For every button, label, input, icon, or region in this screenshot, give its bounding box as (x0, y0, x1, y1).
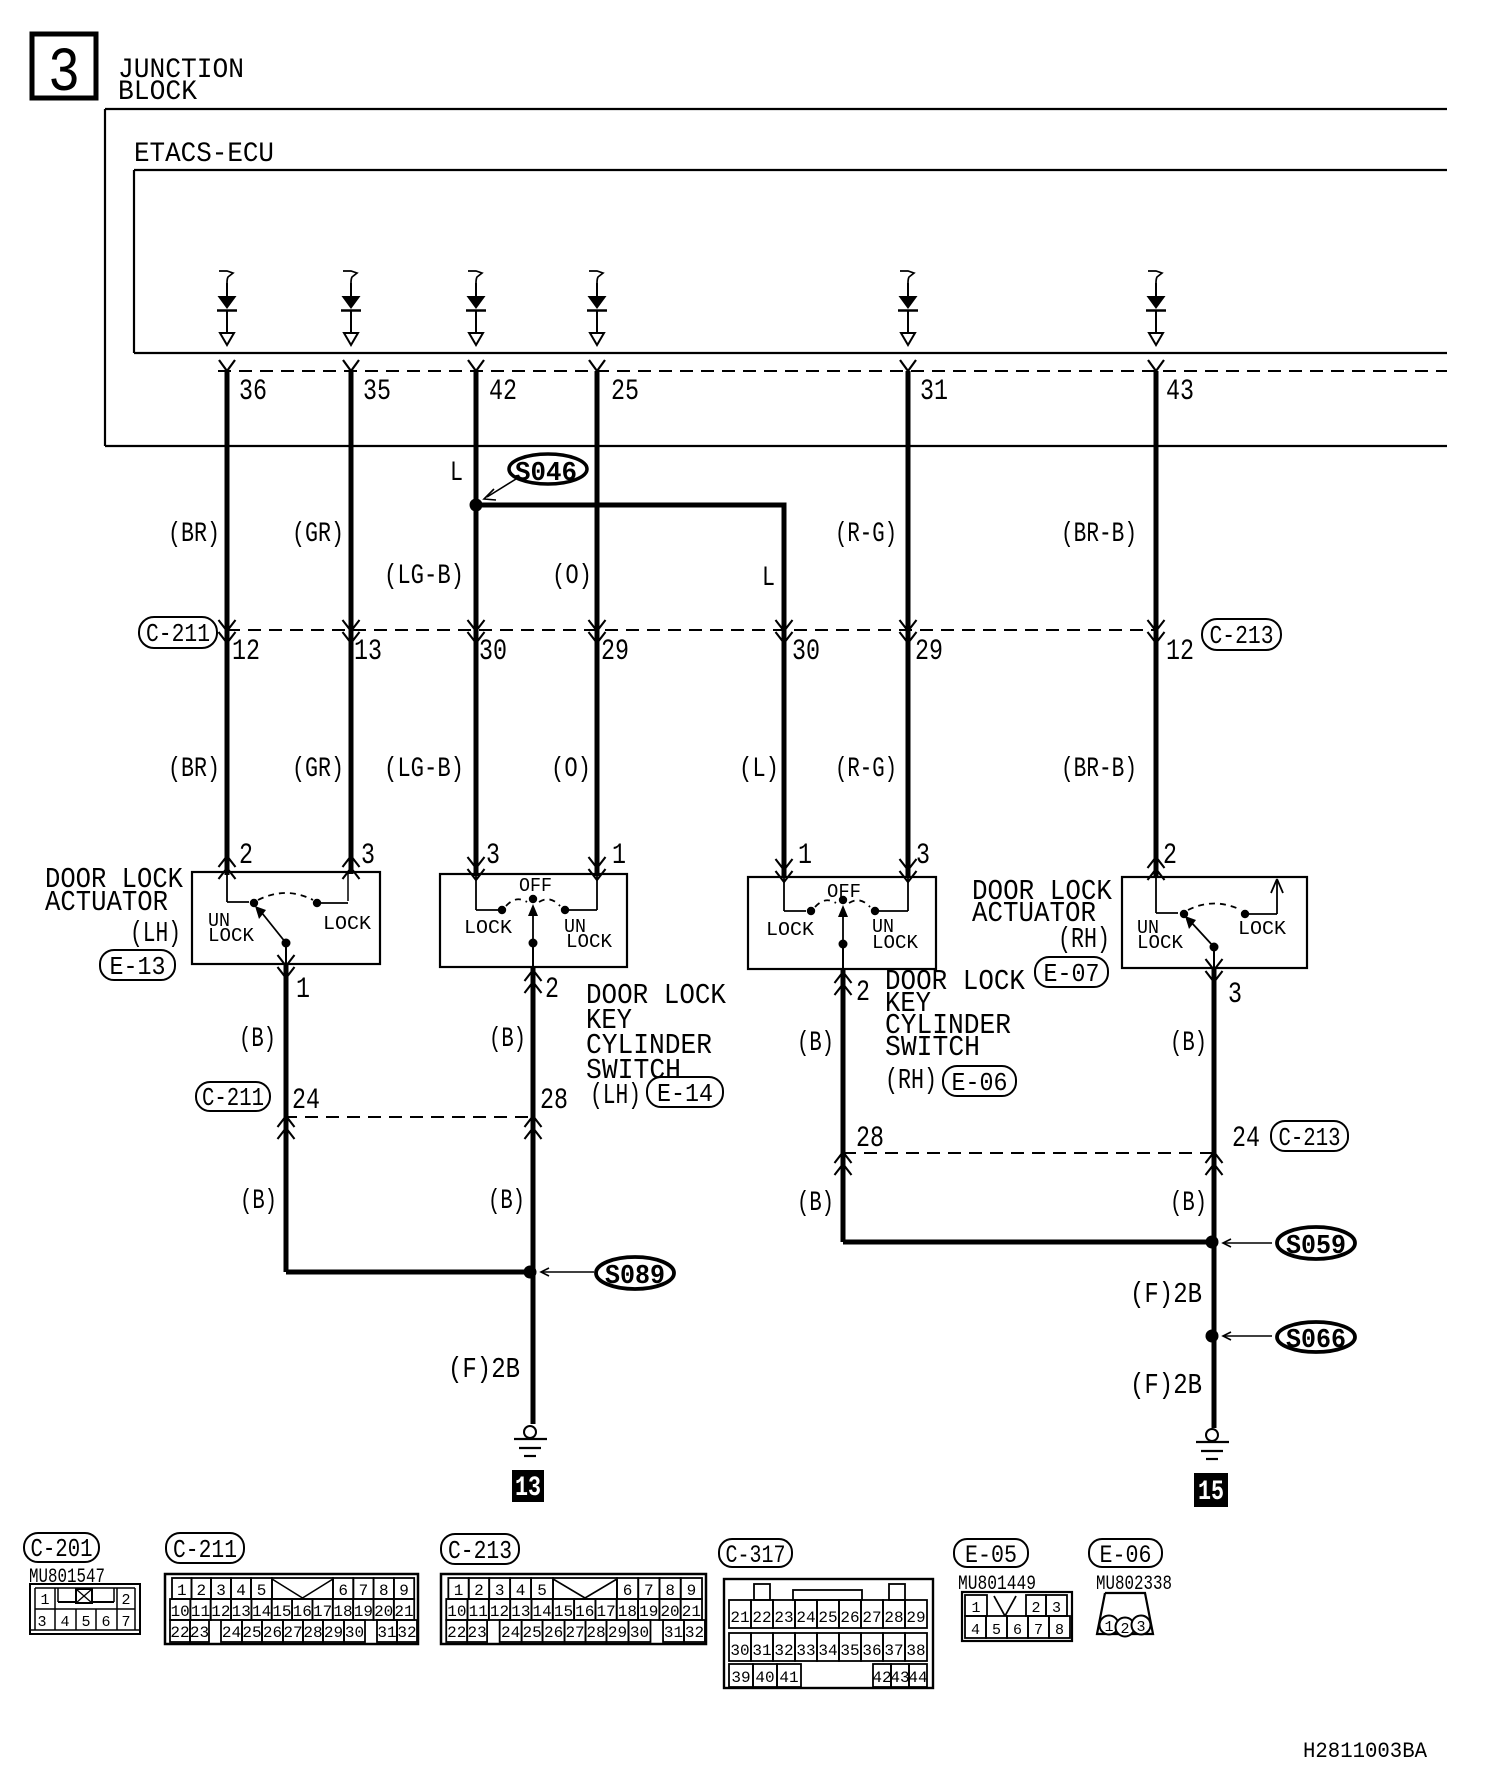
svg-text:15: 15 (1198, 1477, 1224, 1508)
svg-text:29: 29 (906, 1609, 925, 1627)
svg-text:36: 36 (862, 1642, 881, 1660)
svg-text:(LG-B): (LG-B) (384, 561, 464, 592)
svg-text:LOCK: LOCK (1238, 918, 1287, 940)
svg-text:1: 1 (971, 1600, 980, 1617)
svg-text:13: 13 (354, 635, 382, 669)
svg-text:8: 8 (665, 1582, 675, 1600)
svg-text:12: 12 (490, 1603, 509, 1621)
svg-text:27: 27 (565, 1624, 584, 1642)
svg-text:C-317: C-317 (726, 1541, 786, 1570)
svg-text:ACTUATOR: ACTUATOR (45, 886, 168, 919)
svg-text:3: 3 (495, 1582, 505, 1600)
svg-text:16: 16 (575, 1603, 594, 1621)
svg-text:31: 31 (752, 1642, 771, 1660)
svg-text:(B): (B) (488, 1186, 525, 1217)
svg-text:6: 6 (101, 1614, 110, 1631)
svg-text:25: 25 (523, 1624, 542, 1642)
svg-text:42: 42 (872, 1669, 891, 1687)
svg-text:(LH): (LH) (590, 1079, 641, 1112)
svg-text:2: 2 (1031, 1600, 1040, 1617)
svg-text:LOCK: LOCK (766, 919, 815, 941)
svg-text:3: 3 (1228, 978, 1242, 1012)
svg-text:(GR): (GR) (292, 754, 344, 785)
svg-text:(BR-B): (BR-B) (1061, 754, 1137, 785)
svg-text:(GR): (GR) (292, 519, 344, 550)
svg-text:9: 9 (687, 1582, 697, 1600)
svg-text:30: 30 (479, 635, 507, 669)
svg-text:37: 37 (884, 1642, 903, 1660)
svg-text:18: 18 (333, 1603, 352, 1621)
svg-text:2: 2 (196, 1582, 206, 1600)
svg-text:C-211: C-211 (146, 619, 210, 649)
svg-text:30: 30 (730, 1642, 749, 1660)
svg-text:32: 32 (397, 1624, 416, 1642)
svg-text:43: 43 (1166, 375, 1194, 409)
svg-text:40: 40 (755, 1669, 774, 1687)
svg-text:35: 35 (363, 375, 391, 409)
svg-text:(F)2B: (F)2B (1130, 1369, 1202, 1402)
svg-text:LOCK: LOCK (1137, 932, 1184, 954)
svg-text:(B): (B) (797, 1188, 834, 1219)
svg-text:5: 5 (537, 1582, 547, 1600)
svg-text:26: 26 (840, 1609, 859, 1627)
svg-text:23: 23 (468, 1624, 487, 1642)
svg-text:27: 27 (862, 1609, 881, 1627)
svg-text:(BR): (BR) (168, 519, 220, 550)
svg-text:S066: S066 (1286, 1326, 1346, 1356)
svg-text:21: 21 (730, 1609, 749, 1627)
svg-text:3: 3 (48, 38, 80, 109)
svg-text:4: 4 (60, 1614, 69, 1631)
svg-text:26: 26 (263, 1624, 282, 1642)
svg-text:LOCK: LOCK (464, 917, 513, 939)
svg-text:(LG-B): (LG-B) (384, 754, 464, 785)
svg-text:5: 5 (992, 1622, 1001, 1639)
svg-text:24: 24 (222, 1624, 241, 1642)
svg-text:1: 1 (454, 1582, 464, 1600)
svg-text:43: 43 (890, 1669, 909, 1687)
svg-text:6: 6 (1013, 1622, 1022, 1639)
svg-text:9: 9 (399, 1582, 409, 1600)
svg-text:1: 1 (296, 973, 310, 1007)
svg-text:12: 12 (232, 635, 260, 669)
svg-text:1: 1 (177, 1582, 187, 1600)
svg-text:C-213: C-213 (448, 1536, 512, 1566)
svg-text:19: 19 (639, 1603, 658, 1621)
svg-text:38: 38 (906, 1642, 925, 1660)
svg-text:29: 29 (608, 1624, 627, 1642)
svg-text:29: 29 (915, 635, 943, 669)
svg-text:24: 24 (1232, 1122, 1260, 1156)
svg-text:5: 5 (81, 1614, 90, 1631)
svg-text:8: 8 (1055, 1622, 1064, 1639)
svg-text:H2811003BA: H2811003BA (1303, 1739, 1428, 1764)
svg-text:LOCK: LOCK (872, 932, 919, 954)
svg-text:E-14: E-14 (657, 1079, 713, 1109)
svg-text:BLOCK: BLOCK (118, 77, 197, 108)
svg-text:16: 16 (293, 1603, 312, 1621)
svg-text:5: 5 (257, 1582, 267, 1600)
svg-text:E-07: E-07 (1044, 959, 1100, 989)
svg-text:26: 26 (544, 1624, 563, 1642)
svg-text:2: 2 (1163, 839, 1177, 873)
svg-text:10: 10 (171, 1603, 190, 1621)
svg-text:21: 21 (682, 1603, 701, 1621)
svg-text:C-201: C-201 (31, 1534, 93, 1564)
svg-text:39: 39 (731, 1669, 750, 1687)
svg-text:23: 23 (774, 1609, 793, 1627)
svg-text:ETACS-ECU: ETACS-ECU (134, 139, 274, 170)
svg-text:LOCK: LOCK (566, 931, 613, 953)
svg-text:29: 29 (601, 635, 629, 669)
svg-text:11: 11 (469, 1603, 488, 1621)
svg-text:7: 7 (359, 1582, 369, 1600)
svg-text:3: 3 (486, 839, 500, 873)
svg-text:2: 2 (239, 839, 253, 873)
svg-text:10: 10 (447, 1603, 466, 1621)
svg-text:14: 14 (533, 1603, 552, 1621)
svg-text:28: 28 (884, 1609, 903, 1627)
svg-text:44: 44 (908, 1669, 927, 1687)
svg-text:31: 31 (377, 1624, 396, 1642)
svg-text:MU801547: MU801547 (29, 1566, 105, 1589)
svg-text:3: 3 (216, 1582, 226, 1600)
svg-text:(F)2B: (F)2B (448, 1353, 520, 1386)
svg-text:(B): (B) (239, 1024, 276, 1055)
svg-text:(L): (L) (739, 754, 779, 785)
svg-text:14: 14 (252, 1603, 271, 1621)
svg-text:15: 15 (554, 1603, 573, 1621)
svg-text:2: 2 (1120, 1621, 1129, 1638)
svg-text:35: 35 (840, 1642, 859, 1660)
svg-text:36: 36 (239, 375, 267, 409)
svg-text:1: 1 (40, 1592, 49, 1609)
svg-text:17: 17 (596, 1603, 615, 1621)
svg-text:6: 6 (338, 1582, 348, 1600)
svg-text:(B): (B) (240, 1186, 277, 1217)
svg-text:S089: S089 (605, 1262, 665, 1292)
svg-text:41: 41 (779, 1669, 798, 1687)
svg-text:33: 33 (796, 1642, 815, 1660)
svg-text:1: 1 (1104, 1619, 1113, 1636)
svg-text:(F)2B: (F)2B (1130, 1278, 1202, 1311)
svg-text:OFF: OFF (519, 875, 552, 897)
svg-text:25: 25 (818, 1609, 837, 1627)
svg-text:3: 3 (37, 1614, 46, 1631)
svg-text:24: 24 (292, 1084, 320, 1118)
svg-text:(B): (B) (489, 1024, 526, 1055)
svg-text:12: 12 (211, 1603, 230, 1621)
svg-text:7: 7 (1034, 1622, 1043, 1639)
svg-text:4: 4 (971, 1622, 980, 1639)
svg-text:13: 13 (515, 1473, 541, 1504)
svg-text:13: 13 (232, 1603, 251, 1621)
svg-text:17: 17 (313, 1603, 332, 1621)
svg-text:2: 2 (545, 973, 559, 1007)
svg-text:30: 30 (345, 1624, 364, 1642)
svg-text:C-213: C-213 (1210, 621, 1274, 651)
svg-text:E-05: E-05 (965, 1541, 1017, 1570)
svg-text:E-13: E-13 (110, 952, 166, 982)
svg-text:25: 25 (611, 375, 639, 409)
svg-text:6: 6 (623, 1582, 633, 1600)
svg-text:28: 28 (303, 1624, 322, 1642)
svg-text:13: 13 (511, 1603, 530, 1621)
svg-text:2: 2 (474, 1582, 484, 1600)
svg-text:2: 2 (121, 1592, 130, 1609)
svg-text:34: 34 (818, 1642, 837, 1660)
svg-text:22: 22 (752, 1609, 771, 1627)
svg-text:3: 3 (361, 839, 375, 873)
svg-text:SWITCH: SWITCH (885, 1031, 980, 1064)
svg-text:32: 32 (685, 1624, 704, 1642)
svg-text:25: 25 (242, 1624, 261, 1642)
svg-text:21: 21 (394, 1603, 413, 1621)
svg-text:1: 1 (798, 839, 812, 873)
svg-text:24: 24 (501, 1624, 520, 1642)
svg-text:(RH): (RH) (1058, 923, 1110, 956)
svg-text:11: 11 (191, 1603, 210, 1621)
svg-text:C-213: C-213 (1279, 1123, 1341, 1153)
svg-text:S046: S046 (515, 459, 577, 489)
svg-text:19: 19 (354, 1603, 373, 1621)
svg-text:27: 27 (283, 1624, 302, 1642)
svg-text:22: 22 (447, 1624, 466, 1642)
svg-text:4: 4 (516, 1582, 526, 1600)
svg-text:(O): (O) (552, 561, 592, 592)
svg-text:3: 3 (1052, 1600, 1061, 1617)
svg-text:29: 29 (324, 1624, 343, 1642)
svg-text:LOCK: LOCK (208, 925, 255, 947)
svg-text:18: 18 (618, 1603, 637, 1621)
svg-text:28: 28 (856, 1122, 884, 1156)
svg-text:22: 22 (170, 1624, 189, 1642)
svg-text:15: 15 (272, 1603, 291, 1621)
svg-text:2: 2 (856, 976, 870, 1010)
svg-text:12: 12 (1166, 635, 1194, 669)
svg-text:20: 20 (660, 1603, 679, 1621)
svg-text:20: 20 (374, 1603, 393, 1621)
svg-text:8: 8 (379, 1582, 389, 1600)
svg-text:3: 3 (1136, 1619, 1145, 1636)
svg-text:(BR-B): (BR-B) (1061, 519, 1137, 550)
svg-text:S059: S059 (1286, 1232, 1346, 1262)
svg-text:28: 28 (540, 1084, 568, 1118)
svg-text:(R-G): (R-G) (835, 519, 897, 550)
svg-text:31: 31 (920, 375, 948, 409)
svg-text:1: 1 (612, 839, 626, 873)
svg-text:(B): (B) (1170, 1028, 1207, 1059)
svg-text:(R-G): (R-G) (835, 754, 897, 785)
svg-text:L: L (450, 458, 463, 489)
svg-text:(BR): (BR) (168, 754, 220, 785)
svg-text:(B): (B) (797, 1028, 834, 1059)
svg-text:E-06: E-06 (952, 1068, 1008, 1098)
svg-text:(LH): (LH) (130, 917, 181, 950)
svg-text:(B): (B) (1170, 1188, 1207, 1219)
svg-text:31: 31 (664, 1624, 683, 1642)
svg-text:24: 24 (796, 1609, 815, 1627)
svg-text:(RH): (RH) (885, 1064, 937, 1097)
svg-text:LOCK: LOCK (323, 913, 372, 935)
svg-text:30: 30 (630, 1624, 649, 1642)
svg-text:32: 32 (774, 1642, 793, 1660)
svg-text:7: 7 (644, 1582, 654, 1600)
svg-text:4: 4 (236, 1582, 246, 1600)
svg-text:30: 30 (792, 635, 820, 669)
svg-text:3: 3 (916, 839, 930, 873)
svg-text:28: 28 (586, 1624, 605, 1642)
svg-text:23: 23 (190, 1624, 209, 1642)
svg-text:C-211: C-211 (202, 1083, 264, 1113)
svg-text:(O): (O) (551, 754, 591, 785)
svg-text:E-06: E-06 (1100, 1541, 1152, 1570)
svg-text:C-211: C-211 (173, 1535, 237, 1565)
svg-text:7: 7 (121, 1614, 130, 1631)
svg-text:OFF: OFF (827, 881, 861, 903)
svg-text:L: L (762, 563, 775, 594)
svg-text:42: 42 (489, 375, 517, 409)
